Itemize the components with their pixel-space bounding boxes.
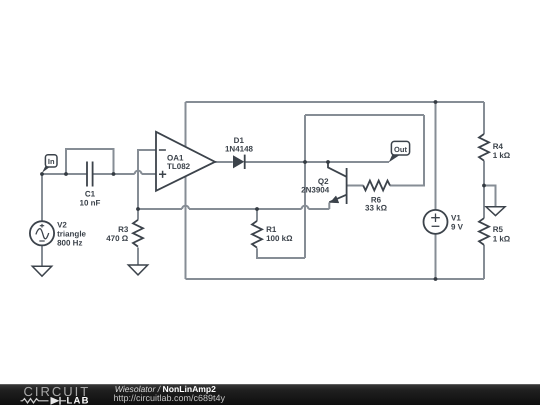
wire: feedback run from node to Q2 emitter (hops at x=185.5 and x=305) bbox=[138, 203, 329, 210]
footer bar bbox=[0, 384, 540, 405]
wire: C1 bypass loop bbox=[66, 149, 114, 174]
wire: V1 top lead bbox=[435, 102, 437, 210]
voltage source V1 bbox=[424, 210, 448, 234]
signal ground arrow between R4 and R5 bbox=[486, 207, 505, 216]
resistor R4 bbox=[479, 134, 489, 161]
wire: tap from R4/R5 node to signal ground arrow bbox=[484, 186, 496, 207]
node: Out flag bbox=[389, 141, 410, 162]
svg-text:10 nF: 10 nF bbox=[80, 198, 101, 207]
transistor Q2 2N3904 bbox=[328, 162, 347, 204]
svg-text:1 kΩ: 1 kΩ bbox=[493, 151, 511, 160]
wire hop over vertical at (305,209) bbox=[302, 206, 309, 209]
node dot R1 top bbox=[255, 207, 259, 211]
wire: In node to C1 left plate bbox=[42, 173, 87, 175]
R6 label bbox=[365, 196, 388, 213]
wire: right rail above R4 bbox=[483, 102, 485, 134]
wire: op-amp V- lead down to bottom rail bbox=[185, 176, 187, 279]
D1 label bbox=[225, 136, 254, 154]
wire: output-node vertical riser x=305 bbox=[304, 115, 306, 258]
node dot R4/R5 bbox=[482, 184, 486, 188]
capacitor C1 bbox=[87, 162, 93, 187]
V2 label bbox=[57, 221, 86, 248]
voltage source V2 (triangle 800 Hz) bbox=[30, 221, 54, 245]
ground (R3) bbox=[128, 265, 147, 275]
node dot Q2 collector bbox=[326, 160, 330, 164]
wire: R1 top lead bbox=[256, 209, 258, 221]
wire: Q2 base lead to R6 bbox=[347, 185, 364, 187]
wire: V2 bottom lead to ground bbox=[41, 246, 43, 267]
Q2 label bbox=[301, 177, 330, 194]
wire: op-amp inverting input down to feedback node bbox=[138, 150, 156, 209]
wire: V1 bottom lead bbox=[435, 234, 437, 279]
svg-text:http://circuitlab.com/c689t4y: http://circuitlab.com/c689t4y bbox=[114, 393, 226, 403]
node: In flag bbox=[42, 155, 57, 173]
resistor R5 bbox=[479, 218, 489, 245]
svg-text:R5: R5 bbox=[493, 225, 504, 234]
node dot V1 top bbox=[434, 100, 438, 104]
ground (V2) bbox=[32, 266, 51, 276]
resistor R3 bbox=[133, 220, 143, 247]
CircuitLab logo: diode symbol bbox=[51, 397, 60, 405]
svg-text:R3: R3 bbox=[118, 225, 129, 234]
svg-text:D1: D1 bbox=[234, 136, 245, 145]
wire: V2 top lead bbox=[41, 174, 43, 221]
wire: top of R6 loop bbox=[305, 114, 424, 116]
R4 label bbox=[493, 142, 511, 160]
svg-text:2N3904: 2N3904 bbox=[301, 186, 330, 195]
R1 label bbox=[266, 225, 293, 243]
svg-text:C1: C1 bbox=[85, 190, 96, 199]
resistor R6 bbox=[363, 181, 390, 191]
svg-text:1N4148: 1N4148 bbox=[225, 145, 254, 154]
wire: right side of R6 loop down to R6 bbox=[390, 115, 424, 186]
wire: R1 bottom to output node vertical bbox=[257, 248, 305, 258]
svg-text:9 V: 9 V bbox=[451, 222, 464, 231]
node dot V1 bottom bbox=[434, 277, 438, 281]
R5 label bbox=[493, 225, 511, 244]
wire: R3 bottom lead to ground bbox=[137, 248, 139, 265]
wire: bottom rail bbox=[186, 278, 485, 280]
node dot C1 right bbox=[112, 172, 116, 176]
wire: op-amp V+ lead up to top rail bbox=[185, 102, 187, 147]
svg-text:1 kΩ: 1 kΩ bbox=[493, 235, 511, 244]
svg-text:R1: R1 bbox=[266, 225, 277, 234]
svg-text:R4: R4 bbox=[493, 142, 504, 151]
svg-text:V2: V2 bbox=[57, 221, 67, 230]
svg-text:TL082: TL082 bbox=[167, 162, 191, 171]
node dot feedback/R3 bbox=[136, 207, 140, 211]
wire: top supply rail bbox=[186, 101, 485, 103]
svg-text:33 kΩ: 33 kΩ bbox=[365, 204, 388, 213]
wire: right rail below R5 bbox=[483, 245, 485, 279]
svg-text:Out: Out bbox=[394, 145, 407, 154]
node dot output riser bbox=[303, 160, 307, 164]
wire: C1 right plate to op-amp + input (hop over x=138) bbox=[93, 173, 156, 175]
svg-text:800 Hz: 800 Hz bbox=[57, 239, 82, 248]
svg-text:In: In bbox=[48, 157, 55, 166]
OA1 label bbox=[167, 154, 191, 171]
wire: right rail between R4 and R5 bbox=[483, 161, 485, 218]
op-amp OA1 TL082 bbox=[156, 132, 215, 191]
svg-text:V1: V1 bbox=[451, 213, 461, 222]
resistor R1 bbox=[252, 221, 262, 248]
svg-text:triangle: triangle bbox=[57, 230, 86, 239]
wire: D1 cathode to Out flag bbox=[245, 161, 389, 163]
node dot C1 left bbox=[64, 172, 68, 176]
wire: op-amp output to D1 anode bbox=[215, 161, 233, 163]
diode D1 bbox=[233, 155, 245, 169]
node dot at In bbox=[40, 172, 44, 176]
svg-text:LAB: LAB bbox=[67, 396, 90, 405]
svg-text:470 Ω: 470 Ω bbox=[106, 234, 129, 243]
CircuitLab logo: resistor zigzag bbox=[21, 399, 49, 403]
capacitor C1 value label bbox=[80, 190, 101, 208]
V1 label bbox=[451, 213, 464, 231]
svg-text:100 kΩ: 100 kΩ bbox=[266, 234, 293, 243]
wire hop over op-amp V- lead at (185.5,209) bbox=[182, 206, 189, 209]
wire: R3 top lead bbox=[137, 209, 139, 220]
R3 label bbox=[106, 225, 129, 243]
wire hop over vertical at (138,174) bbox=[135, 171, 142, 174]
